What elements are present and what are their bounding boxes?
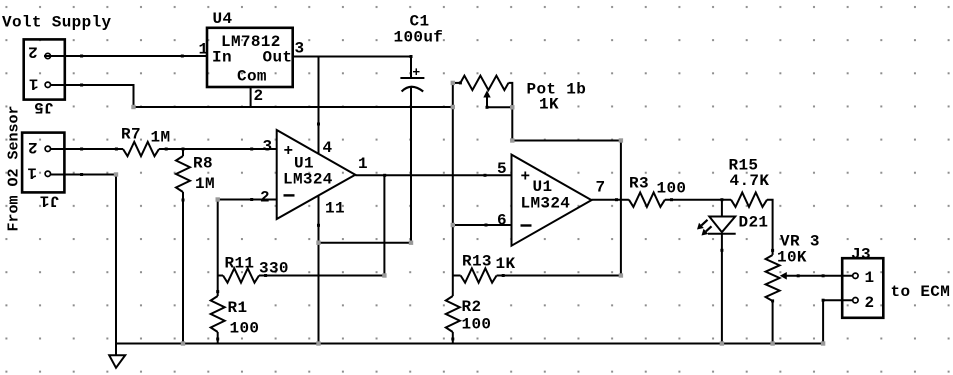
svg-text:Volt Supply: Volt Supply [2, 14, 112, 32]
wire VR3 bottom to ground [772, 301, 774, 344]
svg-text:5: 5 [497, 160, 507, 178]
svg-text:R7: R7 [121, 126, 141, 144]
wire pot left lead [453, 82, 461, 84]
svg-text:4.7K: 4.7K [730, 172, 770, 190]
svg-text:1K: 1K [496, 255, 516, 273]
svg-text:From O2 Sensor: From O2 Sensor [6, 105, 23, 231]
resistor R7 body [123, 142, 159, 156]
connector J1 box [22, 133, 64, 193]
svg-text:1: 1 [865, 269, 875, 287]
wire J1 pin2 to R7 [50, 148, 123, 150]
svg-text:+: + [521, 168, 531, 186]
resistor R1 body [211, 296, 225, 332]
resistor R15 body [731, 193, 767, 207]
svg-text:1: 1 [358, 155, 368, 173]
svg-text:11: 11 [325, 200, 345, 218]
junction ground VR3 [770, 341, 774, 345]
svg-text:4: 4 [323, 139, 333, 157]
connector J3 box [842, 258, 883, 318]
svg-text:100: 100 [657, 180, 687, 198]
IC U4 LM7812 box [207, 28, 293, 87]
wire pot feedback to output [512, 141, 621, 276]
Pot1b wiper arrow [483, 90, 490, 97]
node D21 junction dot [720, 198, 723, 201]
wire R2 bottom lead [452, 332, 454, 344]
node R7 left dot [115, 148, 118, 151]
junction Com bus left [131, 105, 135, 109]
node pot left dot [459, 81, 462, 84]
junction ground D21 [720, 341, 724, 345]
node op-amp2 pin5 stub dot [484, 174, 487, 177]
svg-text:3: 3 [295, 40, 305, 58]
J5 pin1 circle [45, 82, 50, 87]
wire op-amp2 pin6 [453, 224, 512, 226]
junction ground pin11 [316, 341, 320, 345]
junction ground R8 [181, 341, 185, 345]
svg-text:2: 2 [28, 138, 38, 156]
wire J1 pin1 to ground [115, 175, 117, 344]
wire Com bus [134, 106, 453, 108]
wire D21 cathode to ground [721, 234, 723, 344]
wire feedback op-amp1 [383, 175, 385, 275]
connector J5 box [24, 39, 65, 99]
svg-text:330: 330 [259, 260, 289, 278]
wire U4 pin2 stub [250, 87, 252, 107]
junction J1 pin1 corner [114, 172, 118, 176]
node feedback junction dot [383, 174, 386, 177]
node R11 right dot [264, 274, 267, 277]
wire pot wiper stub [487, 96, 512, 107]
op-amp U1a triangle [277, 130, 356, 219]
JUNCTION SQUARES (gray) [114, 81, 826, 346]
wire node pin2 down to R1 [217, 200, 219, 297]
resistor R11 body [223, 268, 259, 282]
wire J5 pin2 to U4 In [44, 55, 207, 57]
svg-text:1M: 1M [151, 129, 171, 147]
svg-text:R3: R3 [629, 175, 649, 193]
VR3 wiper arrow [780, 272, 787, 280]
wire R7 to op-amp pin3 [159, 148, 277, 150]
J1 pin2 circle [45, 146, 50, 151]
wire VR3 wiper to J3 pin1 [786, 275, 853, 277]
svg-text:10K: 10K [777, 249, 807, 267]
capacitor C1 bottom arc [402, 87, 424, 92]
svg-text:LM324: LM324 [283, 171, 333, 189]
potentiometer VR3 body [766, 255, 780, 301]
node C1 corner dot [410, 55, 413, 58]
J3 pin2 circle [853, 298, 858, 303]
svg-text:+: + [412, 65, 420, 80]
svg-text:1: 1 [199, 41, 209, 59]
svg-text:+: + [284, 142, 294, 160]
wire R11 left lead [218, 275, 223, 277]
svg-text:7: 7 [596, 179, 606, 197]
wire pot right lead [509, 83, 513, 141]
resistor R3 body [629, 193, 665, 207]
svg-text:R11: R11 [225, 255, 255, 273]
svg-text:R8: R8 [193, 155, 213, 173]
svg-text:2: 2 [260, 189, 270, 207]
potentiometer Pot1b body [460, 76, 508, 90]
node R1 top dot [216, 290, 219, 293]
wire R3 to D21 node [665, 199, 731, 201]
junction C1 ground right [409, 241, 413, 245]
J1 pin1 circle [45, 171, 50, 176]
ground stem [115, 344, 117, 356]
svg-text:100: 100 [230, 320, 260, 338]
node R3 right dot [670, 198, 673, 201]
wire J1 pin1 [50, 174, 116, 176]
svg-text:J1: J1 [39, 191, 59, 209]
node VR3 bottom dot [771, 299, 774, 302]
node J5 pin2 wire dot [80, 55, 83, 58]
svg-text:to ECM: to ECM [891, 283, 951, 301]
svg-text:1K: 1K [539, 96, 559, 114]
node D21 cathode dot [720, 249, 723, 252]
resistor R2 body [446, 296, 460, 332]
wire op-amp2 out to R3 [592, 199, 629, 201]
node R8 bottom dot [182, 199, 185, 202]
D21 arrow 2 [706, 226, 712, 231]
svg-text:R2: R2 [462, 298, 482, 316]
wire R8 bottom to ground [182, 192, 184, 344]
junction ground J3 [821, 341, 825, 345]
wire J3 pin2 to ground [822, 300, 824, 343]
junction pot feedback corner [619, 138, 623, 142]
wire pot-left vertical [452, 83, 454, 296]
svg-text:3: 3 [263, 138, 273, 156]
node R1 bottom dot [216, 338, 219, 341]
RESISTOR ZIGZAGS [123, 76, 780, 332]
wire op-amp pin11 to ground [318, 196, 320, 344]
PIN CIRCLES [45, 53, 858, 303]
junction feedback R11 [382, 273, 386, 277]
svg-text:1: 1 [29, 75, 39, 93]
node op-amp1 pin2 stub dot [250, 198, 253, 201]
node J1 pin1 wire dot [80, 173, 83, 176]
node U4 pin1 stub dot [181, 55, 184, 58]
op-amp2 minus sign [521, 224, 532, 226]
svg-text:1: 1 [27, 164, 37, 182]
node pot wiper bottom dot [486, 106, 489, 109]
svg-text:2: 2 [254, 87, 264, 105]
node J1 pin2 wire dot [80, 148, 83, 151]
junction pot wiper right [510, 105, 514, 109]
junction C1 ground left [316, 241, 320, 245]
svg-text:U1: U1 [533, 178, 553, 196]
svg-text:LM324: LM324 [521, 195, 571, 213]
wire C1 to ground line [319, 242, 412, 244]
junction op-amp2 pin6 [451, 223, 455, 227]
node VR3 top dot [771, 249, 774, 252]
wire R1 bottom lead [217, 332, 219, 344]
wire C1 bottom lead [410, 87, 412, 243]
WIRE DOTS (black) [80, 55, 825, 341]
svg-text:Com: Com [237, 68, 267, 86]
svg-text:R1: R1 [228, 299, 248, 317]
capacitor C1 top plate [400, 77, 424, 79]
node VR3 wiper dot [797, 274, 800, 277]
LED D21 arrows [483, 90, 787, 279]
junction op-amp1 pin2 [216, 197, 220, 201]
node R8 junction dot [182, 148, 185, 151]
svg-text:U4: U4 [213, 10, 233, 28]
resistor R13 body [461, 268, 497, 282]
wire D21 anode lead [721, 200, 723, 216]
wire U4 Out to C1 [293, 56, 411, 58]
wire ground bus [116, 343, 823, 345]
wire J3 pin2 [823, 299, 853, 301]
junction Com bus right [451, 105, 455, 109]
wire R13 right lead [497, 275, 621, 277]
svg-text:In: In [212, 49, 232, 67]
svg-text:Out: Out [263, 49, 293, 67]
node op-amp1 pin11 stub dot [317, 224, 320, 227]
svg-text:2: 2 [28, 43, 38, 61]
svg-text:100uf: 100uf [394, 29, 444, 47]
svg-text:R13: R13 [462, 253, 492, 271]
node op-amp2 pin6 stub dot [485, 224, 488, 227]
wire J5 pin1 to Com bus corner [51, 85, 134, 107]
diode D21 triangle [709, 217, 735, 233]
D21 arrow 1 [701, 220, 707, 226]
ground symbol triangle [109, 355, 125, 368]
node J3 pin1 stub dot [822, 274, 825, 277]
node op-amp1 pin4 stub dot [317, 123, 320, 126]
node J3 pin2 corner dot [822, 299, 825, 302]
node op-amp1 pin3 stub dot [250, 148, 253, 151]
wire R8 top lead [182, 149, 184, 156]
svg-text:D21: D21 [739, 214, 769, 232]
J3 pin1 circle [853, 273, 858, 278]
junction pot right bottom [510, 138, 514, 142]
op-amp1 minus sign [284, 194, 295, 196]
J5 pin2 circle [45, 53, 50, 58]
wire R15 right corner down [767, 200, 773, 255]
wire C1 top lead [410, 57, 412, 79]
node R13 right dot [502, 274, 505, 277]
node R2 bottom dot [451, 338, 454, 341]
node J5 pin1 wire dot [80, 84, 83, 87]
wire R13 left lead [453, 275, 461, 277]
svg-text:1M: 1M [195, 175, 215, 193]
svg-text:J5: J5 [34, 98, 54, 116]
svg-text:J3: J3 [851, 246, 871, 264]
diode D21 cathode bar [708, 233, 736, 235]
node op-amp2 pin7 stub dot [615, 198, 618, 201]
op-amp U1b triangle [512, 155, 592, 246]
resistor R8 body [176, 156, 190, 192]
wire R11 right to feedback [259, 275, 384, 277]
svg-text:6: 6 [497, 212, 507, 230]
junction feedback R13 [619, 273, 623, 277]
node R7 right dot [165, 148, 168, 151]
wire op-amp1 out to op-amp2 pin5 [355, 174, 511, 176]
svg-text:2: 2 [865, 294, 875, 312]
wire 12V to op-amp pin4 [318, 57, 320, 155]
wire op-amp pin2 [218, 199, 277, 201]
svg-text:100: 100 [462, 316, 492, 334]
junction pot left top [451, 81, 455, 85]
